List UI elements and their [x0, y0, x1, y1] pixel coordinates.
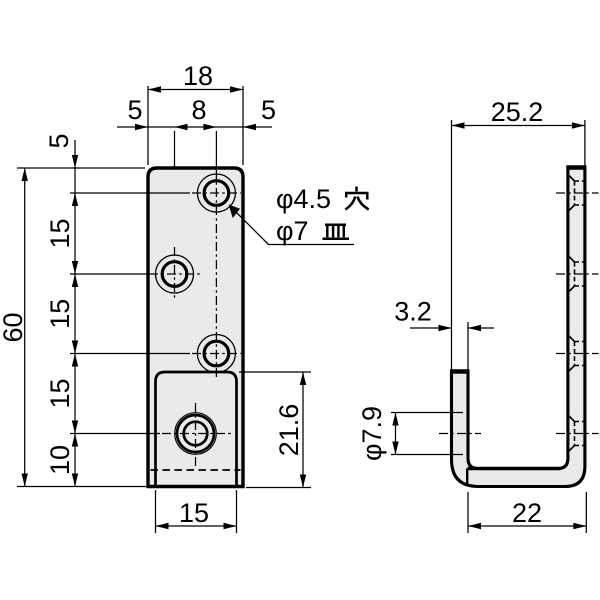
svg-text:10: 10 [45, 445, 75, 475]
hidden countersink lines at hole 1 on back bar [569, 176, 575, 182]
hidden countersink lines at hole 2 on back bar [569, 257, 575, 263]
leader line to hole 1 [232, 208, 269, 245]
dimension 22 extension lines [467, 492, 469, 533]
dimension 18 extension lines [147, 86, 149, 165]
hole 3 countersink circle (phi 7) [197, 335, 235, 373]
hole 2 horizontal centerline [149, 273, 200, 275]
hole 3 horizontal centerline [192, 353, 241, 355]
chain extension line hole3 [70, 353, 190, 355]
dimension 22 line [468, 525, 586, 527]
chain extension line hole1 [70, 192, 190, 194]
hidden countersink lines at hole 3 on back bar [569, 336, 575, 342]
hole 2 axis centerline on back bar [556, 273, 599, 275]
hole 4 burring outer circle [175, 413, 217, 455]
dimension phi7.9 extension lines [391, 412, 463, 414]
svg-text:60: 60 [0, 312, 28, 342]
svg-text:25.2: 25.2 [491, 97, 544, 127]
dimension phi7.9 line [395, 413, 397, 455]
bend line (dashed) [151, 469, 241, 471]
svg-text:18: 18 [183, 61, 213, 91]
dimension 60 line [24, 168, 26, 487]
dimension 3.2 extension line [467, 322, 469, 370]
hole 3 drill circle (phi 4.5) [204, 341, 229, 366]
dimension 3.2 line [410, 327, 452, 329]
chain extension line hole2 [70, 273, 147, 275]
chain dimension line [74, 140, 76, 487]
chain extension line hole4 [70, 433, 160, 435]
dimension 15 extension lines [155, 490, 157, 533]
front view hook (bent tab) outline [156, 372, 237, 486]
hole 1 countersink circle (phi 7) [197, 174, 235, 212]
svg-text:φ7.9: φ7.9 [357, 406, 387, 461]
hole 2 countersink circle (phi 7) [156, 255, 194, 293]
holes 1-3 vertical centerline [215, 170, 217, 378]
hole 4 axis centerline on hook wall [439, 433, 481, 435]
hole 2 vertical centerline [174, 247, 176, 301]
hole 4 bore circle (phi 7.9) [184, 422, 208, 446]
side view inner bottom edge (thick) [468, 467, 560, 471]
hole 4 axis centerline on back bar [556, 433, 599, 435]
svg-text:22: 22 [512, 498, 542, 528]
hole 1 horizontal centerline [192, 192, 241, 194]
svg-text:15: 15 [45, 378, 75, 408]
svg-text:15: 15 [45, 218, 75, 248]
svg-text:5: 5 [44, 133, 74, 148]
hole 4 collar circle [177, 415, 214, 452]
svg-text:8: 8 [191, 95, 206, 125]
hole 4 horizontal centerline [162, 433, 231, 435]
dimension 21.6 extension lines [239, 371, 311, 373]
dimension 5-8-5 extension lines [174, 131, 176, 167]
hidden countersink lines at hole 4 on back bar [569, 416, 575, 422]
hole 3 axis centerline on back bar [556, 353, 599, 355]
svg-text:φ4.5: φ4.5 [276, 184, 331, 214]
side view hook wall top edge (thick) [450, 369, 470, 374]
side view J-profile outline [452, 168, 585, 487]
svg-text:φ7: φ7 [276, 216, 309, 246]
hole 2 drill circle (phi 4.5) [162, 262, 187, 287]
hole 1 drill circle (phi 4.5) [204, 181, 229, 206]
dimension 18 line [148, 89, 243, 91]
hole 1 axis centerline on back bar [556, 192, 599, 194]
svg-text:5: 5 [261, 95, 276, 125]
svg-text:21.6: 21.6 [274, 404, 304, 457]
side view back bar top edge (thick) [566, 165, 586, 170]
side view bend tangent line [466, 469, 468, 485]
svg-text:15: 15 [179, 498, 209, 528]
svg-text:15: 15 [45, 299, 75, 329]
dimension 21.6 line [302, 372, 304, 488]
dimension 5-8-5 line [117, 126, 272, 128]
dimension 25.2 line [452, 125, 585, 127]
hole 4 vertical centerline [195, 403, 197, 466]
svg-text:5: 5 [127, 95, 142, 125]
dimension 15 line [156, 525, 237, 527]
svg-text:3.2: 3.2 [394, 297, 432, 327]
front view plate outline [148, 168, 243, 487]
kanji 'ana' (hole) [345, 187, 369, 210]
chain dimension extension line top [17, 167, 145, 169]
dimension 25.2 extension lines [451, 120, 453, 372]
kanji 'sara' (countersink) [323, 225, 350, 239]
chain dimension extension line bottom [17, 486, 146, 488]
